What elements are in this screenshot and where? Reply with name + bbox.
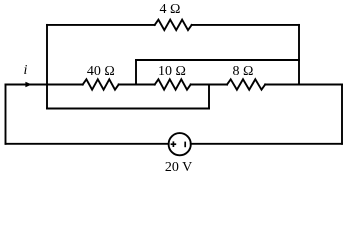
wire mid segment between 10Ω and 8Ω bbox=[191, 84, 227, 86]
wire lower inner horizontal y=108.5 (bypass under 40Ω and 10Ω) bbox=[47, 108, 209, 110]
svg-text:10 Ω: 10 Ω bbox=[158, 64, 186, 79]
wire top-right segment (4Ω to node C) bbox=[192, 24, 299, 26]
resistor 4Ω zigzag bbox=[155, 20, 192, 30]
resistor 10Ω zigzag bbox=[155, 79, 191, 89]
svg-text:20 V: 20 V bbox=[165, 160, 192, 174]
svg-text:i: i bbox=[24, 63, 28, 78]
wire top-left segment (node B to 4Ω) bbox=[47, 24, 155, 26]
resistor 40Ω zigzag bbox=[83, 79, 119, 89]
wire vertical left branch x=47 (top wire down through mid wire to lower loop) bbox=[46, 25, 48, 109]
voltage source plus terminal mark bbox=[171, 143, 177, 145]
wire mid-right segment (8Ω to right edge) bbox=[265, 84, 342, 86]
svg-text:8 Ω: 8 Ω bbox=[233, 64, 254, 79]
voltage source V1 20V circle bbox=[169, 133, 191, 155]
wire right outer vertical x=342 bbox=[341, 85, 343, 144]
wire mid segment between 40Ω and 10Ω bbox=[119, 84, 155, 86]
wire bottom-right segment (voltage source to right) bbox=[191, 143, 342, 145]
wire vertical right branch x=299 (top wire to mid wire) bbox=[298, 25, 300, 85]
wire vertical stub x=209 (mid wire down to lower inner wire) bbox=[208, 85, 210, 109]
svg-text:4 Ω: 4 Ω bbox=[159, 2, 180, 17]
resistor 8Ω zigzag bbox=[227, 79, 265, 89]
wire left outer vertical x=5.5 bbox=[5, 85, 7, 144]
wire vertical stub x=136 (upper inner wire down to mid wire) bbox=[135, 60, 137, 85]
wire mid-left segment with current arrow shaft bbox=[6, 84, 83, 86]
wire bottom-left segment (to voltage source) bbox=[6, 143, 169, 145]
voltage source minus terminal mark (vertical bar) bbox=[184, 142, 186, 148]
wire upper inner horizontal y=60 (bypass over 10Ω and 8Ω) bbox=[136, 59, 299, 61]
svg-text:40 Ω: 40 Ω bbox=[87, 64, 115, 79]
current arrowhead i bbox=[25, 82, 31, 87]
